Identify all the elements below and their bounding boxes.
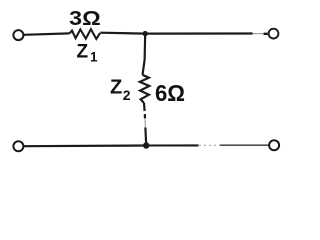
resistor Z2 6ohm zigzag <box>140 75 150 103</box>
wire bottom-right segment <box>146 144 198 146</box>
node junction top <box>143 31 148 36</box>
svg-text:Z: Z <box>77 41 89 62</box>
svg-text:Z: Z <box>110 76 122 98</box>
wire top-right faint segment <box>253 33 264 35</box>
wire top-right dash at terminal <box>264 33 268 35</box>
wire shunt faint segment <box>144 118 146 127</box>
wire bottom-left segment <box>24 144 146 147</box>
wire bottom-right gray segment <box>220 144 270 146</box>
node junction bottom <box>143 142 149 148</box>
wire top-middle segment <box>100 32 145 35</box>
terminal bottom-left <box>13 141 23 151</box>
terminal top-right <box>269 29 279 39</box>
resistor Z1 3ohm zigzag <box>70 29 101 39</box>
svg-text:2: 2 <box>123 87 131 103</box>
terminal top-left <box>13 30 23 40</box>
wire top-right segment <box>145 32 252 34</box>
wire top-left segment <box>24 33 70 34</box>
terminal bottom-right <box>269 140 279 150</box>
svg-text:6Ω: 6Ω <box>155 80 185 106</box>
wire shunt lower segment <box>144 103 146 146</box>
wire shunt upper segment <box>143 34 146 75</box>
svg-text:1: 1 <box>90 50 98 65</box>
svg-text:3Ω: 3Ω <box>69 8 101 30</box>
wire bottom-right faded segment <box>199 144 220 146</box>
